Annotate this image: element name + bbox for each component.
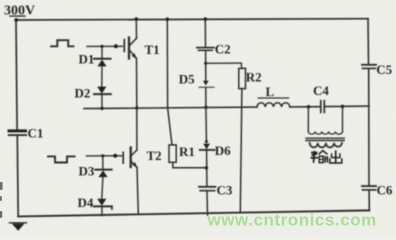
capacitor C2 bbox=[197, 48, 214, 51]
node: D5 column junction on mid rail bbox=[204, 106, 207, 109]
label L underline bbox=[258, 97, 288, 99]
wire: right rail top segment bbox=[367, 19, 370, 64]
wire: gate wire down to D1 bbox=[101, 46, 103, 58]
wire: T2 emitter down to bottom rail bbox=[137, 167, 138, 214]
node: T1/T2 junction on mid rail bbox=[135, 106, 138, 109]
transformer primary leads bbox=[307, 107, 309, 132]
node: D6 top dot bbox=[205, 140, 208, 143]
diode D2 (cathode down) bbox=[94, 87, 111, 95]
transistor T2 (IGBT) bbox=[123, 108, 137, 168]
inductor L bbox=[257, 103, 290, 107]
输 right lower right strokes bbox=[324, 156, 326, 163]
wire: D6 column from mid rail bbox=[205, 107, 208, 141]
transistor T1 (IGBT) bbox=[124, 17, 138, 58]
wire: D5 to mid rail bbox=[205, 88, 207, 108]
pulse waveform (negative) at T2 gate bbox=[48, 156, 75, 162]
wire: top supply rail bbox=[16, 19, 368, 20]
node: junction D1 on gate wire bbox=[100, 45, 103, 48]
node: transformer left junction bbox=[307, 105, 311, 109]
输 left radical bbox=[311, 152, 318, 154]
node: gate dot of T2 bbox=[113, 154, 117, 158]
wire: R1 bottom hook to D6 column bbox=[173, 162, 207, 167]
wire: D3 to D4 bbox=[102, 177, 103, 199]
resistor R1 bbox=[169, 145, 176, 162]
wire: R2 takeoff horizontal bbox=[206, 62, 242, 64]
wire: T2 gate lead bbox=[87, 155, 122, 157]
wire: D2 to mid rail bbox=[101, 94, 103, 108]
label 300V underline bbox=[10, 15, 25, 17]
wire: C2 column from top rail bbox=[204, 19, 206, 47]
node: junction D3 on gate wire bbox=[101, 154, 104, 157]
wire: T1 emitter down to mid rail bbox=[136, 58, 138, 108]
输 right part roof bbox=[319, 151, 328, 155]
wire: D4 to bottom rail bbox=[101, 207, 103, 216]
wire: T1 gate lead bbox=[87, 45, 123, 47]
node: transformer right junction bbox=[341, 105, 345, 109]
capacitor C1 bbox=[8, 129, 28, 135]
diode D4 (cathode down) bbox=[94, 199, 112, 209]
pulse waveform (positive) at T1 gate bbox=[51, 40, 73, 46]
label 输出 (output) drawn as strokes bbox=[311, 150, 342, 163]
ground bbox=[10, 223, 27, 231]
node: junction R1 hook / D6 column bbox=[205, 166, 209, 170]
wire: C3 to bottom rail bbox=[206, 191, 209, 215]
wire: left rail lower (C1 to bottom) bbox=[16, 136, 19, 217]
node: junction C2/R2 takeoff bbox=[204, 62, 207, 65]
transformer primary winding bbox=[308, 132, 342, 135]
wire: mid rail bbox=[84, 107, 257, 109]
wire: D6 to C3 bbox=[206, 150, 208, 186]
node: top-left corner junction bbox=[14, 18, 18, 22]
node: gate dot of T1 bbox=[114, 44, 118, 48]
wire: right rail bottom segment bbox=[368, 190, 370, 210]
capacitor C3 bbox=[199, 187, 215, 191]
wire: R2 bottom down through mid rail to bottom rail bbox=[240, 89, 242, 213]
wire: D1 to D2 bbox=[101, 66, 103, 86]
capacitor C5 bbox=[362, 65, 376, 69]
wire: bottom rail bbox=[18, 210, 369, 216]
wire: gate wire down to D3 bbox=[102, 156, 104, 169]
diode D1 (zener, cathode up) bbox=[94, 59, 111, 67]
diode D3 (zener, cathode up) bbox=[95, 170, 111, 178]
transformer secondary winding bbox=[310, 143, 342, 148]
capacitor C4 (series) bbox=[321, 101, 325, 113]
wire: column from top rail to R1 bbox=[166, 19, 168, 108]
capacitor C6 bbox=[362, 186, 376, 190]
scan smudges on left edge bbox=[0, 182, 3, 218]
node: D2 junction on mid rail bbox=[100, 107, 103, 110]
wire: into R2 bbox=[240, 63, 243, 68]
diode D5 (cathode down) bbox=[199, 81, 214, 88]
wire: right rail mid segment bbox=[368, 69, 370, 185]
出 bbox=[335, 150, 337, 162]
diode D6 (cathode down) bbox=[200, 144, 215, 150]
wire: C2 to D5 bbox=[205, 51, 207, 81]
wire: left rail upper (to C1) bbox=[16, 20, 17, 130]
resistor R2 bbox=[239, 68, 246, 88]
输 right lower left box bbox=[319, 156, 323, 162]
transformer core bbox=[306, 137, 344, 139]
